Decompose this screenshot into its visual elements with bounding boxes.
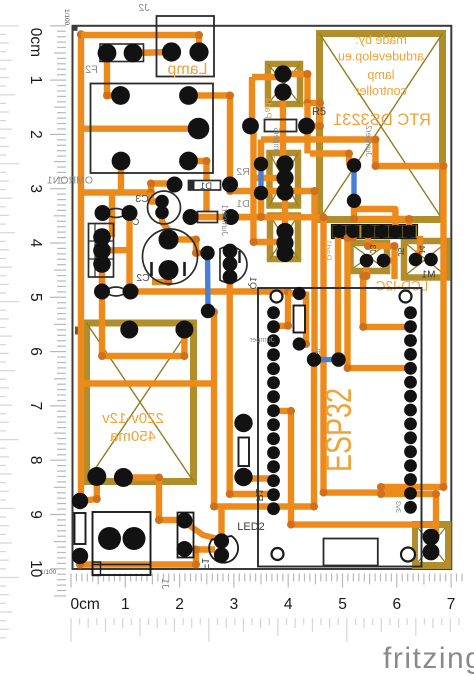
pad ESP-R9 bbox=[404, 418, 417, 431]
pad TR1-4 bbox=[114, 468, 133, 487]
capacitor C2 bbox=[143, 229, 198, 284]
wire OMRON coil- down bbox=[118, 161, 124, 193]
svg-text:Jumper1: Jumper1 bbox=[220, 204, 229, 236]
fuse F2 bbox=[100, 44, 144, 62]
pad ESP-R4 bbox=[404, 348, 417, 361]
wire J3-1 to ESP32 pad R2 bbox=[363, 261, 410, 327]
pad RTC-4 bbox=[375, 225, 388, 238]
svg-text:J4: J4 bbox=[417, 245, 427, 254]
pad ESP-L2 bbox=[267, 320, 280, 333]
pad BR-2 bbox=[423, 544, 440, 561]
svg-text:0cm: 0cm bbox=[71, 596, 100, 613]
pad OMRON coil+ bbox=[111, 86, 130, 105]
pad J3-1 bbox=[360, 254, 374, 268]
pad F2-2 bbox=[124, 44, 143, 63]
pad C4-2 bbox=[122, 205, 138, 221]
pad C5-2 bbox=[123, 284, 139, 300]
pad ESP-L5 bbox=[267, 362, 280, 375]
wire to header pin1 bbox=[109, 193, 115, 238]
pad C2c bbox=[276, 234, 293, 251]
pad R5-1 bbox=[242, 118, 259, 135]
left ruler mm ticks bbox=[50, 25, 66, 27]
wire jumper J6 right down to ESP32 bbox=[191, 217, 411, 493]
svg-text:D1: D1 bbox=[236, 198, 250, 210]
connector J2 Lamp bbox=[157, 16, 215, 77]
wire D1 right across to blue W4 left bbox=[230, 185, 315, 360]
pad ESP-L6 bbox=[267, 376, 280, 389]
pad ESP-L4 bbox=[267, 348, 280, 361]
pad OMRON coil- bbox=[112, 152, 131, 171]
wire to jumper W2 top bbox=[310, 154, 349, 166]
pad TR1-2 bbox=[175, 321, 193, 339]
blue jumper W3 bbox=[205, 253, 211, 311]
wire W2 bottom to RTC pin6 bbox=[354, 201, 409, 232]
pad RTC-1 bbox=[332, 225, 345, 238]
bottom ruler mm ticks bbox=[70, 574, 72, 588]
pad Lamp-1 bbox=[162, 42, 181, 61]
wire left edge long vertical bbox=[78, 32, 84, 501]
pad ESP-R14 bbox=[404, 487, 417, 500]
pad F2-1 bbox=[98, 44, 117, 63]
wire W3 bottom long route to W4 bbox=[208, 312, 314, 507]
blue jumper W1 bbox=[258, 164, 263, 193]
RTC module U1 silkscreen bbox=[320, 34, 443, 220]
pad ESP-R13 bbox=[404, 473, 417, 486]
svg-text:C: C bbox=[132, 217, 139, 227]
svg-text:3: 3 bbox=[27, 184, 44, 193]
LED2 bbox=[209, 536, 238, 563]
pad ESP-R8 bbox=[404, 404, 417, 417]
pad JR-2 bbox=[293, 337, 306, 350]
svg-text:C2: C2 bbox=[136, 272, 150, 284]
svg-text:made by:: made by: bbox=[355, 33, 406, 47]
pad M1-2 bbox=[424, 253, 438, 267]
wire R5 feed vertical bbox=[249, 77, 255, 126]
pad R4-1 bbox=[72, 493, 88, 509]
pad ESP-L14 bbox=[267, 488, 280, 501]
pad F1-1 bbox=[177, 513, 193, 529]
svg-text:9: 9 bbox=[27, 510, 44, 519]
pad M1-1 bbox=[409, 253, 423, 267]
wire TR1 to F1 top bbox=[123, 478, 184, 521]
blue jumper W4 (horizontal) bbox=[314, 357, 339, 362]
connector M1 silkscreen bbox=[404, 241, 447, 278]
svg-text:ardudevelop.eu: ardudevelop.eu bbox=[338, 50, 424, 64]
pad square B silkscreen bbox=[270, 153, 299, 206]
pad ESP-R2 bbox=[404, 320, 417, 333]
pad header-2 bbox=[93, 242, 111, 260]
svg-text:J1: J1 bbox=[159, 578, 171, 589]
pad ESP-L9 bbox=[267, 418, 280, 431]
pad R5-2 bbox=[298, 118, 315, 135]
svg-text:Pad4: Pad4 bbox=[263, 97, 273, 118]
wire pad B3 to pad C1 bbox=[282, 192, 288, 232]
pad LED2-2 bbox=[214, 547, 229, 562]
wire pad A left bbox=[252, 74, 283, 80]
svg-text:F1: F1 bbox=[199, 558, 210, 570]
USB connector bbox=[324, 539, 378, 566]
svg-text:F2: F2 bbox=[85, 64, 98, 76]
pad JR-1 bbox=[293, 287, 306, 300]
bottom-right connector silkscreen bbox=[412, 521, 451, 569]
resistor R5 bbox=[265, 120, 297, 132]
wire R1 bottom to ESP32 pad bbox=[244, 475, 274, 481]
pad A2 bbox=[274, 83, 291, 100]
pad TR1-3 bbox=[87, 467, 106, 486]
pad ESP-R5 bbox=[404, 362, 417, 375]
wire header pin2 to cap column bbox=[102, 247, 130, 254]
pad A1 bbox=[274, 65, 291, 82]
pad RTC-6 bbox=[403, 225, 416, 238]
wire RTC pin3 via J3/M1 gap bbox=[368, 238, 395, 279]
capacitor C5 (small, bottom) bbox=[104, 287, 128, 296]
pad Lamp-2 bbox=[189, 42, 208, 61]
pad ESP-L10 bbox=[267, 432, 280, 445]
wire OMRON NO to D1 right bbox=[189, 96, 231, 185]
svg-text:Lamp: Lamp bbox=[167, 61, 207, 78]
svg-text:RTC DS3231: RTC DS3231 bbox=[333, 111, 431, 129]
svg-text:2: 2 bbox=[27, 130, 44, 139]
connector J3 silkscreen bbox=[351, 243, 388, 271]
pad ESP-L1 bbox=[267, 306, 280, 319]
wire ESP32 pad to BR connector bbox=[411, 494, 437, 533]
pad ESP-R15 bbox=[404, 501, 417, 514]
capacitor C4 (small, top) bbox=[104, 209, 128, 218]
pad C3-1 bbox=[155, 195, 169, 209]
wire branch to RTC pin5 bbox=[354, 209, 395, 232]
pad Q1-1 bbox=[223, 244, 238, 259]
svg-text:4: 4 bbox=[284, 596, 293, 613]
wire J3 right pad stub bbox=[384, 257, 395, 263]
svg-text:1: 1 bbox=[27, 76, 44, 85]
svg-text:1/100: 1/100 bbox=[40, 569, 57, 576]
svg-text:Jumper: Jumper bbox=[249, 335, 275, 344]
svg-text:6: 6 bbox=[392, 596, 401, 613]
svg-text:5: 5 bbox=[338, 596, 347, 613]
pad ESP-L11 bbox=[267, 446, 280, 459]
wire M1 feed stub bbox=[416, 236, 421, 257]
svg-text:Pad1: Pad1 bbox=[323, 239, 333, 260]
wire to jumper W1 top bbox=[258, 140, 264, 165]
wire branch to pad B2 bbox=[254, 175, 286, 181]
wire Q1 pin3 down to ESP32 pad L3b bbox=[230, 277, 274, 494]
wire F2 to Lamp bbox=[133, 52, 172, 53]
pad LED2-1 bbox=[214, 533, 229, 548]
wire long right edge trace bbox=[261, 140, 444, 495]
pad ESP-L3 bbox=[267, 334, 280, 347]
svg-text:1/100: 1/100 bbox=[63, 9, 70, 26]
svg-text:R5: R5 bbox=[312, 106, 326, 118]
pad ESP-L7 bbox=[267, 390, 280, 403]
header J (3-pin) bbox=[89, 224, 114, 278]
resistor R4 (vertical) bbox=[75, 513, 86, 544]
wire branch to jumper R bottom bbox=[299, 292, 306, 345]
jumper R (vertical) bbox=[294, 306, 306, 333]
pad C2- bbox=[159, 260, 179, 280]
svg-text:R: R bbox=[315, 347, 321, 356]
pad D1 anode bbox=[167, 177, 183, 193]
RTC header strip base bbox=[332, 225, 418, 239]
pad D1 cathode bbox=[222, 177, 238, 193]
pad R4-2 bbox=[72, 548, 88, 564]
wire stub down bbox=[304, 103, 310, 154]
pad J6-2 bbox=[223, 209, 239, 225]
pad ESP-R12 bbox=[404, 459, 417, 472]
pad J3-2 bbox=[377, 254, 391, 268]
wire C2 top to jumper W3 top bbox=[169, 240, 208, 254]
wire branch to center bbox=[81, 380, 214, 386]
pad C4-1 bbox=[95, 205, 111, 221]
svg-text:J3: J3 bbox=[368, 244, 378, 253]
bottom ruler inch ticks bbox=[70, 618, 72, 642]
pad C5-1 bbox=[94, 284, 110, 300]
wire cap1 to cap2 vertical bbox=[126, 213, 132, 292]
pad C3-2 bbox=[155, 206, 169, 220]
pad ESP-R3 bbox=[404, 334, 417, 347]
svg-text:6: 6 bbox=[27, 347, 44, 356]
pad C3c bbox=[276, 245, 293, 262]
pad square A silkscreen bbox=[268, 64, 300, 104]
wire TR1 pad to R4 bbox=[80, 477, 97, 502]
wire header pin3 to TR1 pad bbox=[102, 264, 184, 356]
pad header-3 bbox=[93, 255, 111, 273]
pad F1-2 bbox=[177, 541, 193, 557]
pad BR-1 bbox=[423, 529, 440, 546]
wire LED2 top stub bbox=[218, 508, 224, 540]
pad ESP-R1 bbox=[404, 306, 417, 319]
svg-text:fritzing: fritzing bbox=[383, 642, 474, 675]
wire pad A1 to R5 right bbox=[283, 74, 320, 126]
svg-text:C3: C3 bbox=[135, 193, 149, 205]
jumper J6 (wire jumper) bbox=[198, 212, 218, 223]
svg-text:J5: J5 bbox=[396, 247, 406, 256]
pad B1 bbox=[276, 155, 293, 172]
pad ESP-R11 bbox=[404, 445, 417, 458]
svg-text:3v3: 3v3 bbox=[394, 501, 403, 513]
pad J1-2 bbox=[123, 527, 146, 550]
pad RTC-3 bbox=[361, 225, 374, 238]
wire R5 left down to pad C2 bbox=[251, 126, 286, 242]
wire C2 bottom stub bbox=[152, 270, 169, 282]
pad OMRON common bbox=[188, 118, 210, 140]
svg-text:7: 7 bbox=[27, 402, 44, 411]
pad ESP-R7 bbox=[404, 390, 417, 403]
svg-text:2: 2 bbox=[175, 596, 184, 613]
svg-text:7: 7 bbox=[447, 596, 456, 613]
svg-text:0cm: 0cm bbox=[27, 28, 44, 57]
blue jumper W2 bbox=[351, 165, 356, 201]
svg-text:R2: R2 bbox=[236, 166, 250, 178]
pad C2+ bbox=[159, 230, 179, 250]
transformer TR1 silkscreen bbox=[87, 323, 194, 482]
pad square C silkscreen bbox=[270, 216, 298, 260]
wire left edge to D1 anode bbox=[81, 184, 175, 193]
wire top horizontal to Lamp pad bbox=[81, 35, 199, 52]
pad OMRON NC bbox=[179, 152, 198, 171]
R1 resistor bbox=[239, 438, 250, 467]
pad R1-2 bbox=[234, 468, 252, 486]
wire C3 bottom to C2 top bbox=[162, 213, 169, 231]
pad B2 bbox=[276, 169, 293, 186]
wire branch to C3 top pad bbox=[151, 193, 162, 202]
svg-text:R1: R1 bbox=[253, 488, 264, 501]
wire RTC pin1 to blue W4 right bbox=[335, 232, 341, 360]
svg-text:lamp: lamp bbox=[367, 68, 394, 82]
svg-text:450ma: 450ma bbox=[109, 428, 156, 445]
wire ESP32 pad L8 to BR connector bbox=[274, 411, 437, 525]
left ruler inch ticks bbox=[0, 25, 19, 27]
pad ESP-L12 bbox=[267, 460, 280, 473]
PCB board outline bbox=[73, 26, 452, 569]
svg-text:controller: controller bbox=[355, 84, 406, 98]
pad ESP-R6 bbox=[404, 376, 417, 389]
pad J6-1 bbox=[183, 209, 199, 225]
wire to jumper R top bbox=[288, 290, 299, 296]
wire F1 to LED2 diagonal bbox=[186, 523, 220, 540]
svg-text:1: 1 bbox=[121, 596, 130, 613]
diode D1 bbox=[189, 181, 221, 191]
relay OMRON1 bbox=[91, 84, 214, 174]
pad ESP-R10 bbox=[404, 431, 417, 444]
pad ESP-L8 bbox=[267, 404, 280, 417]
wire to OMRON common bbox=[81, 125, 199, 131]
svg-text:3: 3 bbox=[230, 596, 239, 613]
svg-text:Jumper2: Jumper2 bbox=[364, 125, 373, 157]
svg-text:5: 5 bbox=[27, 293, 44, 302]
pad R1-1 bbox=[234, 414, 252, 432]
pad ESP-L13 bbox=[267, 474, 280, 487]
pad C1 bbox=[276, 223, 293, 240]
capacitor C3 bbox=[148, 191, 181, 224]
transistor Q1 bbox=[220, 247, 247, 283]
wire pad A2 to pad B1 bbox=[280, 92, 286, 164]
svg-text:Jumper5: Jumper5 bbox=[272, 127, 281, 159]
wire R4 to F1/LED2 net bbox=[80, 550, 215, 565]
svg-text:ESP32: ESP32 bbox=[318, 388, 359, 472]
svg-text:8: 8 bbox=[27, 456, 44, 465]
svg-text:OMRON1: OMRON1 bbox=[47, 175, 93, 187]
pad Q1-2 bbox=[223, 257, 238, 272]
wire jumper W1 bottom to J6 bbox=[231, 193, 261, 217]
svg-text:4: 4 bbox=[27, 239, 44, 248]
pad Q1-3 bbox=[223, 270, 238, 285]
svg-text:LED2: LED2 bbox=[237, 521, 265, 533]
pad header-1 bbox=[93, 228, 111, 246]
wire OMRON NC down bbox=[189, 161, 207, 211]
svg-text:Q1: Q1 bbox=[247, 277, 258, 290]
pad TR1-1 bbox=[120, 321, 138, 339]
svg-text:J2: J2 bbox=[138, 2, 149, 14]
pad OMRON NO bbox=[179, 86, 198, 105]
wire F2 left pad to OMRON coil bbox=[107, 53, 121, 96]
pad RTC-2 bbox=[346, 225, 359, 238]
svg-text:220v-12v: 220v-12v bbox=[102, 410, 164, 427]
wire RTC pin2 to ESP32 pad R5 bbox=[348, 232, 411, 369]
pad ESP-L15 bbox=[267, 502, 280, 515]
wire cap2 to ESP32 pad L2 bbox=[131, 292, 289, 326]
pad B3 bbox=[276, 183, 293, 200]
ESP32 mounting holes bbox=[271, 291, 283, 303]
svg-text:D1: D1 bbox=[200, 181, 212, 192]
ESP32 module U2 outline bbox=[258, 288, 422, 567]
pad RTC-5 bbox=[389, 225, 402, 238]
fuse F1 bbox=[178, 513, 194, 558]
pad J1-1 bbox=[98, 527, 121, 550]
connector J1 (power) bbox=[93, 512, 151, 575]
